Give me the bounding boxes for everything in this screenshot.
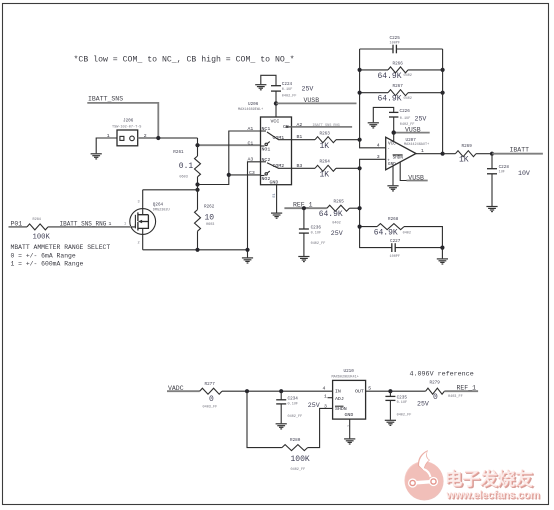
svg-text:C234: C234	[288, 396, 299, 401]
resistor R261 0.1 0603	[173, 138, 200, 185]
node R262 bottom on rail	[195, 248, 199, 252]
svg-text:25V: 25V	[331, 230, 343, 237]
capacitor C234 0.1UF 0402_FF	[276, 391, 302, 423]
wire opamp output	[416, 153, 443, 155]
wire A1 pin to left vertical	[198, 131, 261, 185]
svg-text:E1: E1	[273, 193, 277, 197]
node B1 joins inverting rail	[358, 138, 362, 142]
wire C1 net row	[198, 144, 261, 146]
wire VUSB rail top	[276, 102, 357, 104]
node A3 rail to ground	[245, 248, 249, 252]
svg-text:0 = +/- 6mA Range: 0 = +/- 6mA Range	[11, 253, 76, 260]
wire Q264 drain	[143, 190, 198, 215]
resistor R263 1K	[292, 131, 360, 151]
svg-text:0402: 0402	[404, 97, 412, 101]
svg-text:64.9K: 64.9K	[378, 72, 402, 81]
svg-text:R265: R265	[334, 199, 345, 204]
wire IBATT net	[492, 153, 543, 155]
svg-text:C236: C236	[311, 225, 322, 230]
wire opamp GND drop	[392, 166, 394, 185]
svg-text:R268: R268	[388, 217, 399, 222]
watermark text 电子发烧友	[444, 468, 534, 491]
node IBATT_SNS junction	[156, 136, 160, 140]
text MBATT ammeter note	[11, 244, 111, 267]
wire P01 to R284	[9, 226, 28, 228]
svg-text:0603: 0603	[179, 176, 187, 180]
capacitor C236 0.1UF 0402_FF	[299, 208, 325, 256]
svg-text:OUT: OUT	[355, 389, 364, 395]
svg-text:0.1UF: 0.1UF	[288, 403, 299, 407]
svg-text:0403_FF: 0403_FF	[203, 405, 218, 409]
svg-text:R262: R262	[204, 205, 215, 210]
wire REF_1 row	[284, 207, 327, 209]
svg-text:0402: 0402	[404, 74, 412, 78]
svg-text:100PF: 100PF	[390, 42, 401, 46]
resistor R284 100K	[27, 218, 50, 242]
svg-text:10V: 10V	[518, 170, 530, 177]
svg-text:1UF: 1UF	[499, 171, 505, 175]
svg-text:100PF: 100PF	[390, 255, 401, 259]
svg-text:R277: R277	[205, 382, 216, 387]
ground at C234	[276, 424, 287, 429]
svg-text:MAX44246AUT+: MAX44246AUT+	[404, 143, 429, 147]
svg-text:*CB low = COM_ to NC_, CB high: *CB low = COM_ to NC_, CB high = COM_ to…	[74, 55, 295, 65]
ground at C227	[437, 259, 448, 264]
svg-text:C228: C228	[499, 165, 510, 170]
node R267 left	[358, 91, 362, 95]
ground at U210	[344, 439, 355, 444]
svg-text:25V: 25V	[417, 400, 429, 407]
svg-text:DMG2302U: DMG2302U	[153, 209, 170, 213]
svg-text:0603: 0603	[206, 223, 214, 227]
svg-text:4: 4	[377, 143, 380, 149]
svg-text:1K: 1K	[459, 156, 469, 165]
svg-text:MAX14689EWL+: MAX14689EWL+	[238, 108, 263, 112]
wire IBATT_SNS label stub to J206 pin2 node	[87, 103, 158, 138]
capacitor C235 0.1UF 0402_FF	[385, 391, 411, 420]
wire non-inverting rail	[360, 159, 392, 247]
node R261 top / C1	[195, 143, 199, 147]
resistor R265 64.9K 0402	[319, 199, 360, 225]
svg-text:Q264: Q264	[153, 203, 164, 208]
node VUSB / C224 / VCC	[274, 101, 278, 105]
svg-text:10: 10	[205, 214, 215, 223]
svg-text:IN: IN	[335, 389, 341, 395]
svg-text:www.elecfans.com: www.elecfans.com	[445, 489, 540, 501]
svg-text:R284: R284	[33, 218, 41, 222]
svg-text:C1: C1	[248, 141, 254, 147]
node Q264 drain tap	[195, 188, 199, 192]
svg-text:1: 1	[124, 223, 126, 227]
resistor R262 10 0603	[195, 185, 215, 250]
svg-text:ADJ: ADJ	[335, 396, 344, 402]
svg-text:电子发烧友: 电子发烧友	[444, 468, 532, 489]
wire A2 net IBATT_SNS_RNG	[292, 126, 353, 128]
node R261 bottom sense node	[195, 182, 199, 186]
svg-text:J206: J206	[123, 118, 134, 123]
svg-text:0402: 0402	[332, 221, 340, 225]
wire R280 loop to SHDN	[247, 391, 333, 447]
node R268 left joins rail	[358, 225, 362, 229]
svg-text:R266: R266	[393, 61, 404, 66]
ground at C228	[486, 207, 497, 212]
node R266 left	[358, 68, 362, 72]
svg-text:1: 1	[324, 393, 327, 399]
node output junction	[441, 152, 445, 156]
svg-text:C3: C3	[249, 170, 255, 176]
svg-text:C226: C226	[400, 109, 411, 114]
svg-text:3: 3	[138, 201, 140, 205]
resistor R264 1K	[292, 159, 360, 179]
svg-text:2: 2	[138, 242, 140, 246]
wire to ground at C227	[441, 248, 443, 259]
wire ground rail under Q264/R262	[143, 250, 248, 258]
svg-text:IBATT: IBATT	[510, 147, 530, 154]
ground at J206 pin 1	[91, 154, 102, 159]
svg-text:VUSB: VUSB	[304, 97, 320, 104]
ground at C224	[255, 85, 266, 90]
voltage reference U210 MAX6029EUK41+	[323, 369, 372, 427]
wire U206 GND stub	[276, 185, 278, 213]
node C3 joins A1 vertical	[227, 173, 231, 177]
svg-text:GND: GND	[388, 162, 396, 167]
svg-text:R280: R280	[290, 438, 301, 443]
svg-text:-: -	[387, 147, 390, 152]
capacitor C227 100PF	[390, 239, 443, 259]
wire U206 VCC stub	[275, 103, 277, 117]
wire REF_1 stub bottom	[444, 390, 478, 392]
svg-text:1K: 1K	[320, 170, 330, 179]
svg-text:0.1UF: 0.1UF	[282, 88, 293, 92]
node REF_1 / C236	[302, 206, 306, 210]
svg-text:R279: R279	[430, 380, 441, 385]
wire VUSB rail mid	[394, 132, 430, 134]
svg-text:U210: U210	[344, 369, 355, 374]
capacitor C225 100PF	[360, 36, 443, 54]
svg-text:0402_FF: 0402_FF	[291, 468, 306, 472]
wire C3 row	[229, 174, 261, 176]
watermark logo circle	[404, 450, 443, 501]
svg-text:1K: 1K	[320, 142, 330, 151]
resistor R277 0 0403_FF	[200, 382, 333, 409]
net label IBATT_SNS	[88, 96, 123, 103]
wire inverting input rail	[360, 49, 386, 148]
capacitor C224 0.1UF 0402_FF	[261, 75, 297, 103]
svg-text:C227: C227	[390, 239, 401, 244]
svg-text:VCC: VCC	[388, 141, 396, 146]
svg-text:IBATT_SNS: IBATT_SNS	[88, 96, 123, 103]
wire A3 to ground rail	[248, 162, 261, 250]
svg-text:C235: C235	[397, 395, 408, 400]
node R265 joins rail	[358, 206, 362, 210]
svg-text:100K: 100K	[33, 234, 51, 242]
node C227 / ground	[440, 246, 444, 250]
svg-text:4.096V reference: 4.096V reference	[410, 371, 474, 379]
svg-text:C225: C225	[390, 36, 401, 41]
svg-text:4: 4	[323, 386, 326, 392]
wire J206 pin2 to node	[138, 137, 198, 139]
svg-text:SHDN: SHDN	[393, 155, 404, 160]
wire U210 GND stub	[349, 419, 351, 438]
node C234 tap	[279, 389, 283, 393]
node IBATT / C228	[490, 152, 494, 156]
resistor R268 64.9K 0402	[360, 217, 443, 248]
svg-text:3: 3	[377, 154, 380, 160]
svg-text:0402: 0402	[403, 232, 411, 236]
svg-text:C224: C224	[282, 82, 293, 87]
svg-text:R269: R269	[462, 144, 473, 149]
ground at sense rail	[242, 258, 253, 263]
svg-text:25V: 25V	[308, 402, 320, 409]
wire IBATT_SNS_RNG to Q264 gate	[48, 226, 131, 228]
resistor R267 64.9K 0402	[360, 84, 443, 104]
ground at opamp	[387, 186, 398, 191]
svg-text:R261: R261	[173, 150, 184, 155]
svg-text:A3: A3	[248, 156, 254, 162]
node R280 tap	[245, 389, 249, 393]
svg-text:R264: R264	[320, 159, 331, 164]
watermark text www.elecfans.com	[445, 489, 541, 502]
svg-text:64.9K: 64.9K	[319, 210, 343, 219]
wire VADC stub	[167, 390, 200, 392]
wire opamp VCC drop	[393, 133, 395, 142]
svg-text:25V: 25V	[302, 86, 314, 93]
svg-text:MAX6029EUK41+: MAX6029EUK41+	[332, 376, 359, 380]
ground at C236	[298, 257, 309, 262]
wire J206 pin1 to ground	[96, 138, 117, 153]
svg-text:IBATT_SNS_RNG: IBATT_SNS_RNG	[312, 124, 339, 128]
svg-text:3: 3	[324, 403, 327, 409]
svg-text:VCC: VCC	[271, 119, 280, 125]
svg-text:0: 0	[433, 393, 438, 402]
svg-text:1: 1	[107, 133, 110, 139]
node R267 right	[441, 91, 445, 95]
wire opamp SHDN to VUSB	[400, 162, 408, 180]
wire U210 OUT row	[366, 390, 426, 392]
resistor R280 100K 0402_FF	[282, 438, 310, 472]
svg-text:TSW-102-07-T-S: TSW-102-07-T-S	[112, 126, 141, 130]
svg-text:0402_FF: 0402_FF	[282, 94, 297, 98]
resistor R279 0 0403_FF	[426, 380, 463, 402]
svg-text:GND: GND	[345, 412, 354, 418]
node OUT / C235	[388, 389, 392, 393]
ground at C235	[385, 420, 396, 425]
node R266 right	[441, 68, 445, 72]
svg-text:0403_FF: 0403_FF	[448, 395, 463, 399]
ground at C226	[368, 123, 379, 128]
svg-text:1 = +/- 600mA Range: 1 = +/- 600mA Range	[11, 260, 84, 267]
svg-text:0.1UF: 0.1UF	[311, 231, 322, 235]
svg-text:64.9K: 64.9K	[374, 228, 398, 237]
svg-text:100K: 100K	[291, 455, 310, 464]
svg-text:0402_FF: 0402_FF	[397, 413, 412, 417]
wire VUSB stub at SHDN	[407, 180, 428, 182]
svg-text:0402_FF: 0402_FF	[311, 242, 326, 246]
wire gate stub	[131, 225, 135, 227]
svg-text:25V: 25V	[415, 116, 427, 123]
svg-text:A1: A1	[248, 126, 254, 132]
svg-text:IBATT_SNS_RNG: IBATT_SNS_RNG	[60, 220, 107, 227]
resistor R266 64.9K 0402	[360, 61, 443, 81]
analog switch U206 MAX14689EWL+	[238, 102, 292, 186]
node B3 joins non-inverting rail	[358, 166, 362, 170]
svg-text:0.1UF: 0.1UF	[397, 401, 408, 405]
svg-text:MBATT AMMETER RANGE SELECT: MBATT AMMETER RANGE SELECT	[11, 244, 111, 251]
svg-text:U206: U206	[248, 102, 259, 107]
svg-text:R263: R263	[320, 131, 331, 136]
svg-text:1: 1	[109, 221, 112, 227]
svg-text:NO1: NO1	[262, 147, 271, 153]
node VUSB / opamp VCC	[392, 130, 396, 134]
svg-text:SHDN: SHDN	[335, 406, 347, 412]
resistor R269 1K	[443, 144, 492, 164]
svg-text:0: 0	[209, 395, 214, 404]
connector J206	[107, 118, 147, 146]
wire feedback rail right	[442, 49, 444, 154]
svg-text:64.9K: 64.9K	[378, 95, 402, 104]
svg-text:REF_1: REF_1	[457, 385, 477, 392]
svg-text:0.1UF: 0.1UF	[400, 117, 411, 121]
capacitor C226 0.1UF 0402_FF	[373, 107, 414, 132]
capacitor C228 1UF	[487, 154, 509, 206]
transistor Q264 DMG2302U	[124, 201, 170, 250]
svg-text:0.1: 0.1	[179, 162, 194, 171]
ground at U206 GND	[271, 213, 282, 218]
op-amp U207 MAX44246AUT+	[377, 137, 429, 170]
svg-text:0402_FF: 0402_FF	[288, 415, 303, 419]
svg-text:R267: R267	[393, 84, 404, 89]
